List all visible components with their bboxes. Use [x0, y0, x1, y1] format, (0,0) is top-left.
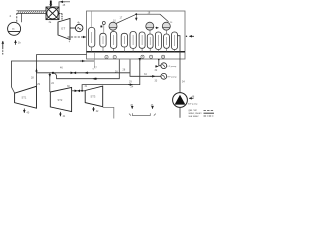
svg-text:GT: GT [61, 27, 65, 31]
svg-text:ST3: ST3 [91, 95, 96, 99]
svg-text:ST1: ST1 [22, 96, 27, 100]
svg-text:LP pump: LP pump [168, 66, 177, 68]
svg-text:ST2: ST2 [58, 98, 63, 102]
svg-text:water, steam: water, steam [189, 112, 202, 115]
svg-text:SW pump: SW pump [188, 104, 198, 106]
svg-text:sea water: sea water [189, 115, 199, 118]
svg-text:HP pump: HP pump [168, 77, 178, 79]
svg-text:gas / air: gas / air [189, 109, 197, 112]
